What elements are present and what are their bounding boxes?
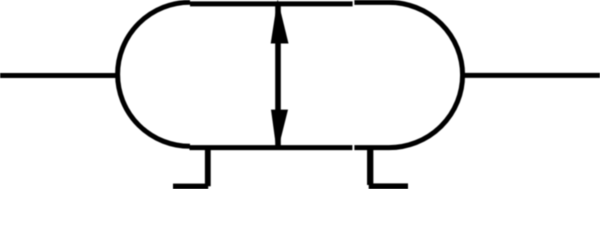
arrow shaft (vertical double-headed arrow) (275, 6, 281, 146)
wire: left inlet pipe (0, 73, 120, 78)
wire: right outlet pipe (461, 73, 600, 78)
support leg right (367, 147, 373, 185)
vessel body right half (stadium outline, right) (354, 2, 462, 147)
arrowhead down (271, 110, 288, 150)
support leg left (205, 147, 211, 186)
support foot left (173, 184, 208, 189)
vessel body left half (stadium outline, left) (118, 2, 353, 147)
support foot right (369, 183, 408, 189)
arrowhead up (271, 0, 289, 44)
